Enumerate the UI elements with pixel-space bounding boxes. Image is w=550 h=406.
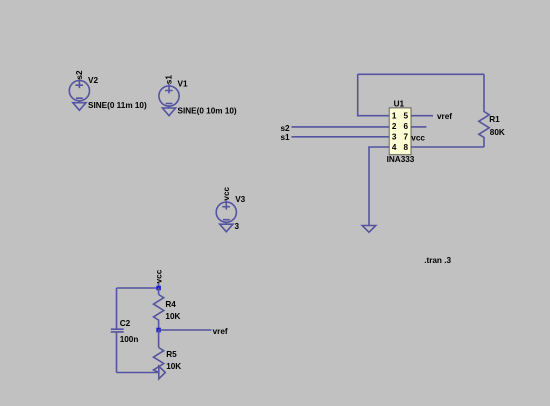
voltage source V1 bbox=[159, 84, 179, 108]
voltage source V3 bbox=[216, 200, 236, 224]
ground (U1 pin4) bbox=[362, 226, 376, 233]
svg-text:SINE(0 10m 10): SINE(0 10m 10) bbox=[178, 106, 237, 115]
wire R4 top lead bbox=[158, 288, 160, 295]
wire vref out bbox=[159, 329, 212, 331]
wire divider bottom bbox=[117, 372, 159, 374]
svg-text:vref: vref bbox=[437, 112, 452, 121]
wire C2 top lead bbox=[116, 288, 118, 329]
wire pin8 to R1 bottom bbox=[411, 146, 484, 148]
svg-text:R1: R1 bbox=[489, 115, 500, 124]
svg-text:vcc: vcc bbox=[411, 134, 425, 143]
op-amp U1 INA333 body bbox=[389, 108, 411, 155]
wire divider top bbox=[117, 287, 159, 289]
svg-text:100n: 100n bbox=[120, 335, 139, 344]
svg-text:2: 2 bbox=[392, 122, 397, 131]
wire C2 bottom lead bbox=[116, 332, 118, 373]
svg-text:V3: V3 bbox=[235, 195, 245, 204]
svg-text:10K: 10K bbox=[165, 312, 180, 321]
junction node (vref) bbox=[156, 328, 161, 333]
wire pin5 vref bbox=[411, 115, 433, 117]
svg-text:7: 7 bbox=[404, 133, 409, 142]
svg-text:vref: vref bbox=[213, 327, 228, 336]
ground (V1) bbox=[162, 108, 175, 116]
wire vcc stub to node bbox=[158, 283, 160, 288]
resistor R1 bbox=[479, 112, 489, 148]
wire R5 top lead bbox=[158, 330, 160, 348]
svg-text:10K: 10K bbox=[166, 362, 181, 371]
svg-text:s1: s1 bbox=[165, 75, 174, 85]
resistor R5 bbox=[154, 348, 164, 373]
svg-text:vcc: vcc bbox=[154, 269, 163, 283]
svg-text:.tran .3: .tran .3 bbox=[424, 256, 451, 265]
svg-text:4: 4 bbox=[392, 143, 397, 152]
wire pin1 feedback (vertical + horizontal into pin 1) bbox=[358, 74, 390, 115]
svg-text:SINE(0 11m 10): SINE(0 11m 10) bbox=[88, 101, 147, 110]
svg-text:8: 8 bbox=[404, 143, 409, 152]
svg-text:vcc: vcc bbox=[222, 186, 231, 200]
wire R1 top lead bbox=[483, 74, 485, 112]
voltage source V2 bbox=[69, 79, 89, 103]
svg-text:5: 5 bbox=[404, 112, 409, 121]
wire s2 to pin 2 bbox=[292, 126, 390, 128]
svg-text:R5: R5 bbox=[166, 350, 177, 359]
svg-text:s2: s2 bbox=[75, 70, 84, 80]
resistor R4 bbox=[154, 295, 164, 331]
svg-text:C2: C2 bbox=[120, 319, 131, 328]
svg-text:6: 6 bbox=[404, 122, 409, 131]
svg-text:U1: U1 bbox=[394, 99, 405, 108]
svg-text:R4: R4 bbox=[165, 300, 176, 309]
svg-text:3: 3 bbox=[392, 133, 397, 142]
svg-text:INA333: INA333 bbox=[387, 155, 415, 164]
wire s1 to pin 3 bbox=[292, 136, 390, 138]
svg-text:80K: 80K bbox=[490, 128, 505, 137]
ground (V2) bbox=[73, 103, 86, 111]
wire pin6 stub bbox=[411, 126, 426, 128]
svg-text:1: 1 bbox=[392, 112, 397, 121]
capacitor C2 bbox=[111, 329, 124, 332]
svg-text:s2: s2 bbox=[281, 124, 291, 133]
wire pin4 to ground bbox=[369, 147, 389, 226]
svg-text:s1: s1 bbox=[281, 133, 291, 142]
svg-text:V2: V2 bbox=[88, 76, 98, 85]
ground (V3) bbox=[220, 224, 233, 232]
svg-text:V1: V1 bbox=[178, 79, 188, 88]
svg-text:3: 3 bbox=[235, 222, 240, 231]
wire top feedback bbox=[358, 73, 484, 75]
ground (divider, rotated right) bbox=[159, 366, 166, 379]
junction node (vcc) bbox=[156, 286, 161, 291]
